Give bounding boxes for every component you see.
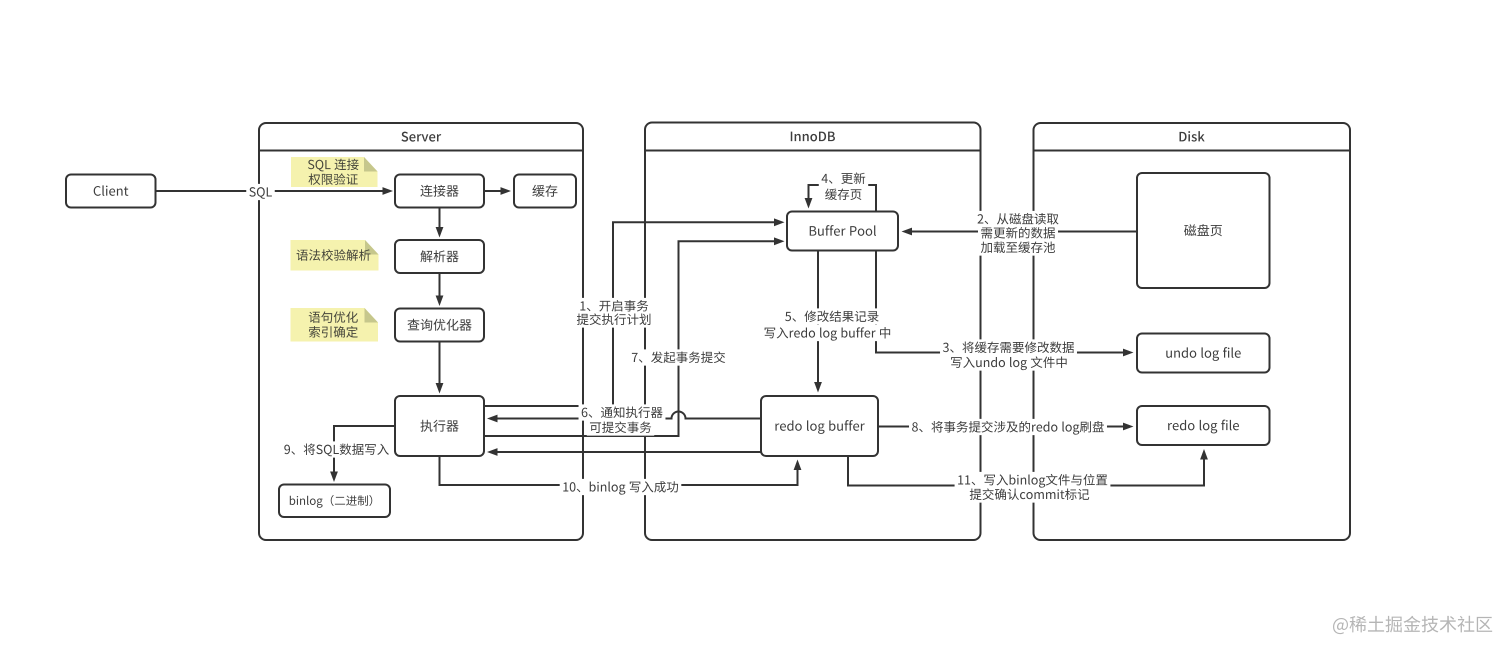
node binlog（二进制） xyxy=(279,485,390,518)
node Client xyxy=(66,175,156,208)
label 8、将事务提交涉及的redo log刷盘 xyxy=(909,419,1107,435)
label 7、发起事务提交 xyxy=(629,349,728,365)
node 连接器 xyxy=(395,175,484,208)
node 查询优化器 xyxy=(395,309,484,342)
node redo log buffer xyxy=(761,396,878,456)
label 4、更新 缓存页 xyxy=(819,170,868,186)
label 2、从磁盘读取 需更新的数据 加载至缓存池 xyxy=(975,211,1062,227)
label SQL xyxy=(246,184,275,200)
wire 6: redo log buffer to 执行器 (with hop) xyxy=(497,412,761,419)
container InnoDB xyxy=(645,123,981,541)
wire 5: Buffer Pool to redo log buffer xyxy=(817,251,819,383)
node undo log file xyxy=(1137,334,1270,373)
label 10、binlog 写入成功 xyxy=(560,479,682,495)
wire 11: redo log buffer to redo log file xyxy=(848,456,1204,486)
wire 9: 执行器 to binlog xyxy=(334,426,395,472)
wire 4: Buffer Pool self loop xyxy=(809,185,877,212)
node 解析器 xyxy=(395,240,484,273)
container Disk xyxy=(1034,123,1351,540)
wire 10: 执行器 to redo log buffer xyxy=(440,456,798,485)
sticky note 语句优化 索引确定 xyxy=(291,308,379,342)
label 5、修改结果记录 写入redo log buffer 中 xyxy=(782,308,881,324)
node 缓存 xyxy=(514,175,576,208)
label 6、通知执行器 可提交事务 xyxy=(579,404,666,420)
node Buffer Pool xyxy=(787,212,898,251)
container Server xyxy=(259,123,583,540)
label 11、写入binlog文件与位置 提交确认commit标记 xyxy=(955,472,1111,488)
watermark 稀土掘金 xyxy=(1333,616,1492,634)
label 3、将缓存需要修改数据 写入undo log 文件中 xyxy=(940,339,1077,355)
sticky note 语法校验解析 xyxy=(291,240,379,271)
wire 3: Buffer Pool to undo log file xyxy=(876,251,1123,353)
wire 7: 执行器 to Buffer Pool xyxy=(484,241,774,436)
wire: 解析器 to 查询优化器 xyxy=(439,273,441,296)
wire: 连接器 to 解析器 xyxy=(439,208,441,228)
wire: redo log buffer to 执行器 (lower) xyxy=(497,451,761,453)
wire: 连接器 to 缓存 xyxy=(484,190,501,192)
node 磁盘页 xyxy=(1137,173,1270,288)
label 9、将SQL数据写入 xyxy=(281,441,391,457)
wire 1: 执行器 to Buffer Pool xyxy=(484,222,774,406)
wire SQL: Client to 连接器 xyxy=(156,190,384,192)
label 1、开启事务 提交执行计划 xyxy=(577,298,651,314)
sticky note SQL 连接 权限验证 xyxy=(291,157,378,187)
node redo log file xyxy=(1137,406,1270,445)
node 执行器 xyxy=(395,396,484,456)
wire 8: redo log buffer to redo log file xyxy=(878,426,1123,428)
wire: 查询优化器 to 执行器 xyxy=(439,342,441,384)
wire 2: 磁盘页 to Buffer Pool xyxy=(912,231,1138,233)
